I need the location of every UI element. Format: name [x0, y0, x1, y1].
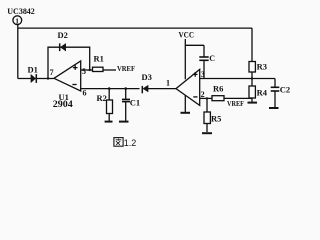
svg-text:UC3842: UC3842	[7, 6, 35, 16]
svg-text:R3: R3	[257, 61, 267, 71]
svg-text:VREF: VREF	[117, 64, 135, 73]
svg-text:R6: R6	[213, 84, 223, 94]
svg-text:R5: R5	[211, 113, 221, 123]
svg-text:VCC: VCC	[179, 31, 195, 40]
svg-text:C1: C1	[130, 97, 140, 107]
svg-text:3: 3	[201, 70, 205, 79]
svg-text:D3: D3	[142, 72, 152, 82]
svg-text:1: 1	[15, 16, 19, 25]
svg-text:C2: C2	[280, 84, 290, 94]
svg-text:R2: R2	[97, 93, 107, 103]
svg-text:7: 7	[50, 68, 54, 77]
svg-text:2904: 2904	[53, 99, 74, 109]
svg-text:1: 1	[166, 78, 170, 87]
svg-text:6: 6	[83, 88, 87, 97]
svg-text:D1: D1	[28, 64, 38, 74]
svg-text:R1: R1	[94, 54, 104, 64]
svg-text:5: 5	[82, 67, 86, 76]
svg-text:C: C	[209, 54, 215, 63]
svg-text:D2: D2	[58, 30, 68, 40]
svg-text:2: 2	[201, 90, 205, 99]
svg-text:VREF: VREF	[227, 99, 244, 108]
svg-text:1.2: 1.2	[124, 138, 137, 148]
svg-text:R4: R4	[257, 87, 268, 97]
